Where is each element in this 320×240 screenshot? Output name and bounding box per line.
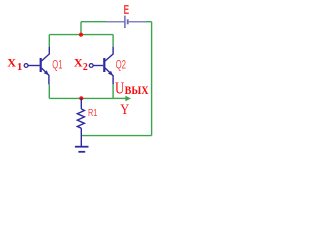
svg-text:R1: R1 xyxy=(88,107,98,119)
transistor Q2 emitter (navy) with arrow xyxy=(105,68,113,84)
transistor Q2 base bar xyxy=(103,58,105,72)
wire Q2 emitter (green segment) xyxy=(112,84,114,98)
transistor Q1 collector (navy) xyxy=(42,47,50,61)
svg-text:1: 1 xyxy=(17,62,22,73)
transistor Q2 base lead xyxy=(93,65,103,67)
wire emitter bus xyxy=(49,97,113,99)
transistor Q2 input terminal circle xyxy=(89,64,93,68)
transistor Q1 emitter (navy) with arrow xyxy=(42,68,49,84)
svg-text:U: U xyxy=(115,78,124,97)
wire riser from node to battery line xyxy=(80,22,82,35)
wire battery left (green segment) xyxy=(81,21,107,23)
resistor R1 zigzag xyxy=(77,109,84,128)
transistor Q1 base bar xyxy=(40,58,42,72)
wire bottom xyxy=(81,135,151,137)
wire Q1 emitter (green segment) xyxy=(48,84,50,98)
transistor Q1 base lead xyxy=(28,65,40,67)
wire top collector bus xyxy=(49,34,113,36)
junction node dot at resistor top xyxy=(79,96,83,100)
wire Q2 collector (green segment) xyxy=(112,35,114,47)
svg-text:X: X xyxy=(74,56,83,70)
battery E short plate xyxy=(127,19,129,24)
svg-text:Q1: Q1 xyxy=(52,57,62,71)
svg-text:2: 2 xyxy=(83,62,88,73)
transistor Q2 collector (navy) xyxy=(105,47,113,61)
transistor Q1 input terminal circle xyxy=(24,64,28,68)
svg-text:X: X xyxy=(7,56,16,70)
output arrow Y xyxy=(113,97,126,99)
svg-text:Q2: Q2 xyxy=(116,57,127,71)
wire battery right to corner (green) xyxy=(146,21,152,23)
resistor R1 bottom lead xyxy=(80,128,82,146)
junction node dot at battery riser xyxy=(79,33,83,37)
wire Q1 collector (green segment) xyxy=(48,35,50,47)
battery E right lead xyxy=(129,21,146,23)
battery E left lead xyxy=(107,21,125,23)
svg-text:ВЫХ: ВЫХ xyxy=(125,85,149,97)
svg-text:Y: Y xyxy=(120,102,129,118)
wire right side vertical xyxy=(151,22,153,136)
svg-text:E: E xyxy=(124,2,130,17)
resistor R1 top lead xyxy=(80,98,82,109)
ground bar 2 xyxy=(78,151,85,153)
ground bar 1 xyxy=(75,146,89,148)
battery E long plate xyxy=(124,16,126,29)
